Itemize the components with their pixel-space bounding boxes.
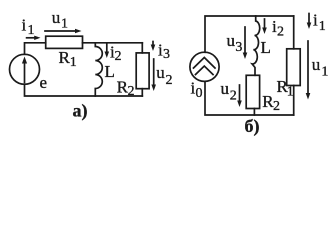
resistor R1 (circuit a) (46, 36, 83, 48)
resistor R2 (circuit a) (136, 43, 149, 96)
svg-text:R: R (59, 48, 71, 67)
svg-text:2: 2 (115, 49, 122, 64)
inductor L (circuit a) (95, 43, 102, 96)
wire left bottom (circuit b) (205, 81, 294, 115)
label u2 (circuit a) (156, 63, 172, 88)
label R1 (59, 48, 77, 70)
label i0 (191, 79, 203, 102)
voltage arrow u2 (circuit a) (151, 59, 156, 91)
current source i0 (190, 52, 219, 81)
svg-text:1: 1 (287, 85, 294, 100)
svg-text:1: 1 (321, 65, 328, 80)
svg-text:e: e (40, 73, 48, 92)
label i2 (110, 43, 122, 64)
svg-text:u: u (221, 79, 230, 98)
svg-text:i: i (22, 16, 27, 35)
resistor R1 (circuit b) (287, 16, 301, 115)
voltage arrow u1 (circuit b) (306, 41, 311, 100)
bottom wire (circuit a) (25, 84, 143, 96)
label i3 (158, 41, 170, 62)
svg-text:i: i (313, 11, 318, 30)
svg-text:2: 2 (230, 89, 237, 104)
svg-text:L: L (105, 62, 115, 81)
label R2 (circuit b) (262, 92, 280, 114)
label u1 (circuit b) (312, 55, 329, 80)
svg-text:2: 2 (166, 73, 173, 88)
inductor L (circuit b) (252, 16, 260, 75)
svg-text:L: L (261, 38, 271, 57)
current arrow i2 (105, 44, 110, 59)
svg-text:0: 0 (196, 86, 203, 101)
current arrow i2 (circuit b) (262, 19, 267, 34)
svg-text:1: 1 (319, 19, 326, 34)
svg-text:1: 1 (61, 17, 68, 32)
svg-text:u: u (156, 63, 165, 82)
svg-text:2: 2 (277, 25, 284, 40)
wire source top to R1 (25, 43, 46, 55)
svg-text:u: u (52, 8, 61, 27)
svg-text:1: 1 (70, 55, 77, 70)
svg-text:2: 2 (273, 99, 280, 114)
current arrow i1 (circuit b) (307, 14, 312, 30)
svg-text:3: 3 (235, 40, 242, 55)
label R1 (circuit b) (277, 77, 294, 99)
svg-text:u: u (312, 55, 321, 74)
svg-text:1: 1 (28, 23, 35, 38)
voltage arrow u2 (circuit b) (237, 85, 242, 107)
current arrow i1 (27, 36, 41, 40)
voltage arrow u3 (243, 27, 248, 59)
resistor R2 (circuit b) (246, 75, 259, 115)
voltage source e (10, 54, 40, 84)
label i1 (22, 16, 35, 38)
wire left branch (circuit b) (205, 16, 294, 52)
wire R1 to right branch (83, 42, 143, 44)
svg-text:u: u (227, 31, 236, 50)
label u1 (52, 8, 68, 32)
svg-text:а): а) (73, 101, 88, 122)
current arrow i3 (151, 42, 156, 52)
label u3 (227, 31, 243, 55)
svg-text:3: 3 (163, 47, 170, 62)
voltage arrow u1 (45, 29, 82, 34)
label i2 (circuit b) (272, 17, 284, 40)
label R2 (117, 77, 135, 99)
label u2 (circuit b) (221, 79, 237, 104)
label i1 (circuit b) (313, 11, 326, 34)
svg-text:б): б) (245, 116, 260, 137)
